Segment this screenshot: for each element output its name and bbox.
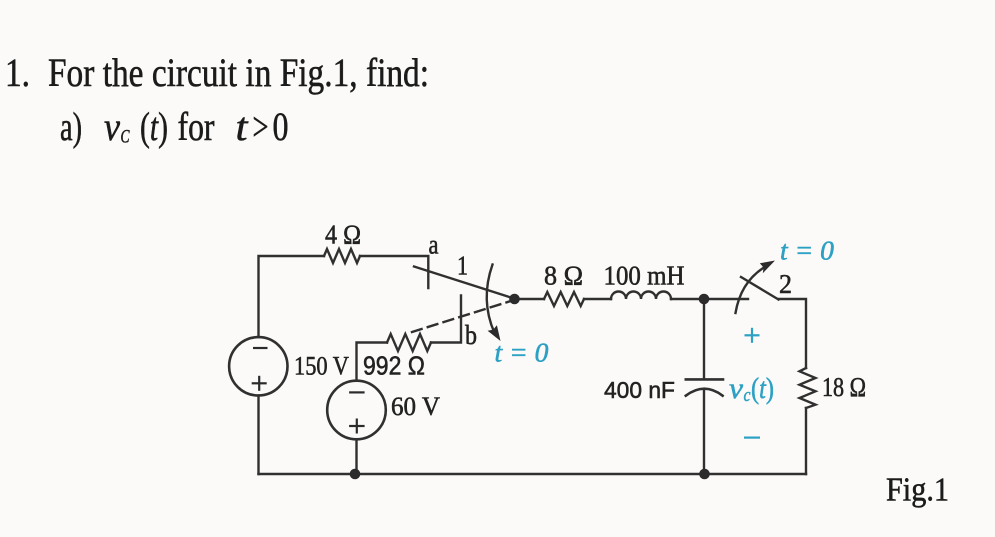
svg-text:400 nF: 400 nF	[604, 377, 675, 403]
wire: 18-ohm to bottom right corner	[805, 408, 807, 474]
svg-text:v: v	[729, 372, 744, 405]
capacitor C1 curved bottom plate	[686, 389, 723, 396]
svg-text:100 mH: 100 mH	[604, 261, 685, 291]
plus sign of source V2	[349, 425, 365, 427]
resistor R3 18-ohm vertical zigzag	[800, 368, 816, 408]
wire: 8-ohm to inductor	[584, 298, 611, 300]
svg-text:(t): (t)	[751, 372, 774, 405]
svg-text:1.: 1.	[5, 50, 30, 95]
wire: 60V top to 992-ohm	[357, 343, 388, 381]
svg-text:t = 0: t = 0	[780, 236, 834, 266]
svg-text:Fig.1: Fig.1	[886, 472, 949, 509]
resistor R2 8-ohm zigzag	[544, 292, 584, 306]
svg-text:v: v	[104, 104, 120, 149]
wire: left rail top + top rail to 4-ohm	[259, 256, 325, 337]
svg-text:t: t	[236, 104, 249, 149]
capacitor C1 top plate	[686, 378, 723, 381]
svg-text:150 V: 150 V	[294, 352, 349, 381]
voltage source V1 150V circle	[229, 337, 287, 395]
svg-text:t = 0: t = 0	[495, 338, 549, 368]
wire: left rail bottom	[257, 396, 259, 475]
node dot: switch 1 pole	[509, 294, 520, 305]
node dot: inductor/capacitor junction	[699, 294, 710, 305]
svg-text:4 Ω: 4 Ω	[325, 220, 361, 250]
minus sign of source V2	[349, 391, 365, 393]
switch S2 blade	[741, 277, 779, 300]
svg-text:8 Ω: 8 Ω	[544, 261, 583, 291]
svg-text:c: c	[744, 385, 751, 406]
wire: inductor to node2	[671, 298, 704, 300]
svg-text:For the circuit in Fig.1, find: For the circuit in Fig.1, find:	[48, 50, 429, 95]
voltage source V2 60V circle	[327, 381, 386, 440]
wire: node2 to switch 2 pole	[704, 298, 748, 300]
wire: 60V bottom to bottom rail	[355, 439, 357, 474]
wire: switch 2 contact, right rail down to 18-ohm	[779, 299, 807, 368]
svg-text:for: for	[178, 104, 215, 149]
svg-text:b: b	[465, 320, 477, 350]
inductor L1 100 mH coils	[611, 292, 671, 300]
svg-text:a): a)	[60, 104, 82, 149]
arrowhead of switch 2 arc	[760, 261, 775, 274]
svg-text:>: >	[253, 104, 269, 149]
svg-text:0: 0	[273, 104, 289, 149]
switch S1 blade to position a	[414, 267, 514, 299]
svg-text:1: 1	[457, 251, 468, 281]
label minus of vc (cyan)	[744, 437, 760, 439]
switch S2 motion arc	[736, 265, 769, 313]
svg-text:a: a	[429, 230, 439, 260]
wire: 4-ohm to terminal a, tick down	[360, 256, 428, 288]
svg-text:992 Ω: 992 Ω	[363, 351, 425, 381]
node dot: capacitor bottom on rail	[699, 469, 710, 480]
wire: capacitor bottom to bottom rail	[703, 390, 705, 475]
switch S1 motion arc	[487, 265, 495, 334]
svg-text:60 V: 60 V	[391, 392, 440, 421]
resistor R1 4-ohm zigzag	[324, 249, 360, 263]
wire: bottom rail	[259, 473, 807, 475]
resistor R4 992-ohm zigzag	[387, 334, 431, 351]
svg-text:2: 2	[779, 269, 792, 299]
arrowhead of switch 1 arc	[488, 325, 501, 341]
plus sign of source V1	[252, 382, 267, 384]
minus sign of source V1	[252, 348, 365, 434]
switch S1 dashed line to position b	[412, 300, 514, 332]
label plus of vc (cyan drawn lines)	[744, 328, 760, 438]
wire: capacitor branch top	[703, 303, 705, 379]
svg-text:C: C	[121, 127, 130, 148]
svg-text:(t): (t)	[140, 104, 168, 149]
wire: 992-ohm to terminal b tick	[431, 296, 461, 343]
wire: node1 to 8-ohm	[514, 298, 544, 300]
svg-text:18 Ω: 18 Ω	[822, 372, 866, 402]
node dot: 60V bottom on rail	[350, 469, 361, 480]
